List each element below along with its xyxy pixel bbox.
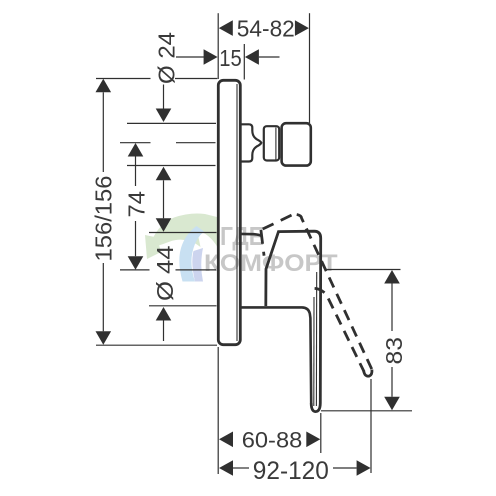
extension line y165 <box>127 165 216 167</box>
svg-text:Ø 24: Ø 24 <box>154 32 180 84</box>
outlet connector piece 3 <box>282 123 311 165</box>
svg-text:92-120: 92-120 <box>253 457 329 485</box>
extension line 83-top <box>326 269 401 271</box>
extension line y142 <box>120 142 216 144</box>
handle hub bottom and grip back edge <box>241 307 311 403</box>
extension line 83-bottom <box>321 410 412 412</box>
dimension Ø24 <box>154 32 180 218</box>
extension line y123 <box>127 122 216 124</box>
dashed lever alternate position <box>261 214 372 376</box>
svg-text:ГДЕ: ГДЕ <box>220 221 264 251</box>
dimension 156/156 <box>90 79 116 345</box>
svg-text:15: 15 <box>219 45 242 71</box>
extension line wall-top <box>217 13 219 79</box>
handle hub top <box>241 234 262 236</box>
outlet connector piece 2 <box>264 126 279 160</box>
svg-text:83: 83 <box>381 337 407 365</box>
dimension 60-88 <box>219 427 320 452</box>
extension line handle-front-bottom <box>320 413 322 453</box>
svg-text:156/156: 156/156 <box>90 176 116 262</box>
svg-text:54-82: 54-82 <box>237 15 295 41</box>
handle lever body <box>266 231 321 411</box>
dimension 74 <box>124 143 150 270</box>
dimension 54-82 <box>219 15 309 41</box>
dimension 15 <box>176 45 280 71</box>
extension line y78 left <box>96 78 217 80</box>
watermark text <box>204 221 338 277</box>
svg-text:74: 74 <box>124 191 150 218</box>
extension line y270 <box>120 269 216 271</box>
lever inner edge lines <box>314 272 317 406</box>
dimension 83 <box>381 270 407 410</box>
svg-text:Ø 44: Ø 44 <box>152 246 178 302</box>
extension line y345 <box>96 344 217 346</box>
watermark logo <box>145 213 218 281</box>
lever top nub <box>305 230 310 231</box>
extension line plate-front-top <box>243 44 245 80</box>
dimension Ø44 <box>152 218 178 341</box>
extension line wall-bottom <box>217 347 219 474</box>
extension line lever-tip-bottom <box>370 379 372 473</box>
outlet connector piece 1 <box>241 124 261 161</box>
extension line y232 <box>149 232 217 234</box>
extension line spout-tip-top <box>309 13 311 123</box>
wall plate <box>218 80 240 344</box>
svg-text:60-88: 60-88 <box>242 427 303 452</box>
extension line y305 <box>149 305 217 307</box>
dimension 92-120 <box>219 457 371 485</box>
